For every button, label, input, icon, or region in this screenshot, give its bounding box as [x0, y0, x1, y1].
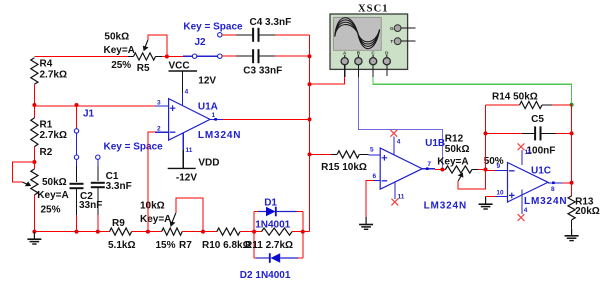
svg-text:25%: 25% [41, 205, 61, 216]
wire pin2 riser [148, 132, 168, 231]
wire throw2 to C4 [222, 34, 236, 36]
pin 8 output lead U1C [548, 182, 563, 184]
wire C2 bottom [76, 188, 78, 215]
capacitor C4 3.3nF [252, 28, 254, 42]
svg-text:7: 7 [427, 161, 431, 168]
op-amp U1A body [169, 99, 210, 141]
node C3 net junction [308, 54, 312, 58]
svg-text:2.7kΩ: 2.7kΩ [40, 70, 67, 81]
svg-text:R14 50kΩ: R14 50kΩ [492, 92, 538, 103]
wire J1 throw2 to C1 [97, 159, 99, 166]
node D-loop left [252, 230, 256, 234]
svg-text:Key=A: Key=A [140, 214, 171, 225]
svg-text:Key=A: Key=A [37, 190, 68, 201]
pin 3 lead [155, 105, 169, 107]
switch J2 blade [197, 55, 218, 57]
wire R12 right to junction [478, 169, 486, 171]
svg-text:C5: C5 [531, 114, 544, 125]
svg-text:50%: 50% [484, 156, 504, 167]
wire top-left net from R4 to R5 [34, 56, 130, 58]
R5 wiper arrow [145, 40, 148, 47]
node scope-A junction [308, 82, 312, 86]
svg-text:R4: R4 [40, 59, 53, 70]
node scope-C junction green [570, 103, 574, 107]
node C1 bottom [96, 230, 100, 234]
svg-text:Key=A: Key=A [437, 156, 468, 167]
ground GND at U1C pin10 [485, 197, 487, 205]
XSC1 terminal stubs [344, 65, 346, 77]
op-amp U1B body [380, 148, 422, 189]
svg-text:U1C: U1C [531, 166, 551, 177]
R7 wiper loop [176, 198, 203, 232]
svg-text:C3 33nF: C3 33nF [243, 66, 282, 77]
svg-text:R5: R5 [137, 63, 150, 74]
wire D-loop right vertical [302, 212, 304, 259]
svg-text:U1B: U1B [425, 138, 445, 149]
wire R5 right to junction [162, 56, 167, 58]
power VDD symbol [182, 150, 184, 168]
svg-text:15%: 15% [156, 240, 176, 251]
wire riser to R15 [310, 153, 332, 155]
svg-text:R9: R9 [112, 218, 125, 229]
svg-text:Key = Space: Key = Space [183, 22, 243, 33]
wire C4 right [259, 34, 275, 36]
diode D2 1N4001 [256, 257, 269, 259]
wire bottom rail [34, 231, 109, 233]
switch J1 throw1 [74, 155, 78, 159]
wire scope-A red [310, 77, 345, 84]
wire C1 bottom [97, 187, 99, 215]
node R12 right junction [484, 168, 488, 172]
svg-text:LM324N: LM324N [524, 196, 567, 207]
pin 6 lead U1B [372, 180, 380, 182]
wire scope-C green [373, 77, 571, 105]
svg-text:4: 4 [397, 139, 401, 146]
svg-text:Key=A: Key=A [104, 45, 135, 56]
capacitor C1 3.3nF [91, 182, 105, 184]
wire C5 row [486, 132, 522, 134]
pin 5 lead U1B [369, 154, 381, 156]
wire scope-B blue [358, 77, 442, 170]
svg-text:T: T [390, 39, 393, 44]
node rail / R10 left [201, 230, 205, 234]
U1B plus sign [382, 155, 388, 161]
pin 4 stub U1B [393, 137, 395, 155]
resistor R9 5.1k [110, 228, 132, 235]
svg-text:4: 4 [185, 89, 189, 96]
wire left feedback riser [485, 105, 487, 170]
R2 wiper loop [12, 162, 34, 182]
svg-text:D2: D2 [240, 270, 253, 281]
diode D1 1N4001 [258, 211, 266, 213]
svg-text:R7: R7 [179, 240, 192, 251]
svg-text:3.3nF: 3.3nF [106, 181, 132, 192]
svg-text:-12V: -12V [176, 173, 197, 184]
wire J1 throw1 to C2 [76, 159, 78, 166]
potentiometer R7 body [162, 228, 183, 235]
no-connect X on U1C pin4 [518, 214, 525, 221]
wire U1C out to junction [563, 182, 572, 184]
pin 9 lead U1C [486, 169, 496, 171]
switch J2 throw2 [218, 33, 222, 37]
svg-text:R2: R2 [40, 147, 53, 158]
switch J1 pole [74, 129, 78, 133]
resistor R10 6.8k [217, 228, 240, 235]
wire main riser [309, 35, 311, 231]
svg-text:50kΩ: 50kΩ [104, 32, 129, 43]
svg-text:10: 10 [496, 190, 504, 197]
no-connect X on U1C pin11 [518, 143, 525, 150]
wire R14 left [486, 104, 520, 106]
pin 10 lead U1C [487, 196, 495, 198]
switch J2 pole [192, 54, 196, 58]
R12 wiper loop [458, 170, 485, 189]
switch J2 throw1 [218, 54, 222, 58]
no-connect X on U1B pin4 [390, 130, 397, 137]
switch J1 throw2 [96, 155, 100, 159]
wire U1B out to R12 [435, 169, 445, 171]
ground GND bottom-left [33, 232, 35, 240]
ground GND under R13 [571, 228, 573, 236]
U1B minus sign [382, 180, 388, 182]
node C5 right junction [570, 131, 574, 135]
capacitor C2 33nF [70, 183, 84, 185]
node U1C output junction [570, 181, 574, 185]
node U1A output junction [308, 117, 312, 121]
wire U1A output to riser [223, 118, 310, 120]
pin 4 lead U1A [182, 93, 184, 105]
svg-text:R1: R1 [40, 120, 53, 131]
wire to J2 pole [183, 55, 192, 57]
no-connect X on U1B pin11 [391, 199, 398, 206]
svg-text:U1A: U1A [198, 102, 218, 113]
svg-text:R11 2.7kΩ: R11 2.7kΩ [245, 240, 293, 251]
svg-text:LM324N: LM324N [198, 130, 241, 141]
resistor R4 2.7k vertical [31, 58, 38, 85]
svg-text:LM324N: LM324N [424, 200, 467, 211]
svg-text:50kΩ: 50kΩ [445, 144, 470, 155]
node U1B output junction [440, 168, 444, 172]
node R1 bottom [32, 160, 36, 164]
XSC1 input terminals A B C D [344, 55, 346, 58]
wire right feedback riser [571, 105, 573, 196]
node C5 left junction [484, 131, 488, 135]
XSC1 screen sine traces [335, 18, 380, 49]
svg-text:1: 1 [212, 112, 216, 119]
R5 wiper loop [148, 35, 167, 57]
svg-text:G: G [390, 26, 394, 31]
svg-text:R12: R12 [445, 134, 464, 145]
U1C minus sign [509, 170, 515, 172]
svg-text:12V: 12V [198, 76, 216, 87]
node R5 right junction [165, 55, 169, 59]
svg-text:3: 3 [157, 100, 161, 107]
pin 11 stub U1B [394, 182, 396, 199]
node R15 junction [308, 152, 312, 156]
resistor R14 50k [520, 101, 543, 108]
svg-text:XSC1: XSC1 [358, 4, 389, 15]
svg-text:20kΩ: 20kΩ [575, 206, 600, 217]
wire rail to R10 [203, 231, 217, 233]
svg-text:10kΩ: 10kΩ [140, 201, 165, 212]
XSC1 screen [334, 17, 382, 50]
svg-text:2: 2 [157, 126, 161, 133]
pin 1 output lead [210, 118, 223, 120]
wire node to op-amp pin3 [34, 105, 158, 107]
wire R5 junction to VCC node [167, 56, 183, 58]
potentiometer R2 body [33, 147, 35, 169]
svg-text:50kΩ: 50kΩ [42, 177, 67, 188]
wire D1 corners [254, 211, 260, 213]
wire D2 corners [254, 257, 258, 259]
wire J1 node down [76, 105, 78, 129]
svg-text:VDD: VDD [198, 158, 219, 169]
wire C3 right [259, 55, 275, 57]
op-amp U1C body [508, 163, 549, 203]
svg-text:D1: D1 [264, 198, 277, 209]
resistor R13 20k vertical [568, 196, 575, 220]
svg-text:11: 11 [525, 149, 532, 156]
svg-text:VCC: VCC [169, 61, 190, 72]
svg-text:J2: J2 [195, 37, 207, 48]
wire throw1 to C3 [222, 55, 236, 57]
resistor R1 2.7k vertical [31, 118, 38, 147]
pin 7 output lead U1B [422, 168, 435, 170]
svg-text:Key = Space: Key = Space [104, 142, 164, 153]
U1A minus sign [170, 131, 176, 133]
R7 wiper arrow [172, 213, 176, 222]
U1C plus sign [509, 193, 515, 199]
node at R4 bottom / J1 net [32, 103, 36, 107]
pin 11 lead U1A [182, 133, 184, 150]
pin 2 lead [155, 131, 169, 133]
wire R11 leads [254, 231, 261, 233]
node D-loop right [301, 230, 305, 234]
svg-text:1N4001: 1N4001 [255, 270, 290, 281]
svg-text:R15 10kΩ: R15 10kΩ [321, 162, 367, 173]
wire D-loop left vertical [253, 212, 255, 259]
svg-text:25%: 25% [111, 60, 131, 71]
svg-text:9: 9 [497, 163, 501, 170]
resistor R5 body [128, 56, 134, 58]
svg-text:4: 4 [524, 207, 528, 214]
wire loop-to-riser [303, 231, 310, 233]
svg-text:R10 6.8kΩ: R10 6.8kΩ [202, 240, 251, 251]
resistor R11 2.7k [262, 228, 293, 235]
svg-text:11: 11 [186, 147, 193, 154]
svg-text:5: 5 [370, 147, 374, 154]
oscilloscope XSC1 box [330, 14, 408, 69]
XSC1 G T terminals [394, 25, 401, 32]
R2 wiper arrow [23, 182, 29, 185]
resistor R15 10k [331, 153, 337, 155]
U1A plus sign [170, 105, 176, 111]
wire pin10 ground stub [486, 196, 487, 198]
svg-text:J1: J1 [83, 109, 95, 120]
svg-text:5.1kΩ: 5.1kΩ [108, 240, 135, 251]
capacitor C5 100nF [534, 126, 536, 140]
pin 11 stub U1C [521, 150, 523, 165]
svg-text:2.7kΩ: 2.7kΩ [40, 130, 67, 141]
svg-text:6: 6 [373, 173, 377, 180]
svg-text:33nF: 33nF [79, 200, 102, 211]
R12 wiper arrow [458, 177, 461, 182]
node rail / pin2 riser [146, 230, 150, 234]
node C2 bottom [75, 230, 79, 234]
pin 4 stub U1C [521, 190, 523, 214]
potentiometer R12 body [445, 166, 472, 173]
wire pin6 to ground [366, 181, 374, 217]
wire rail to R7 [148, 231, 162, 233]
node J1 top [75, 103, 79, 107]
ground GND under U1B [365, 217, 367, 225]
wire junction to R13 [571, 183, 573, 196]
svg-text:11: 11 [398, 194, 405, 201]
svg-text:8: 8 [551, 186, 555, 193]
switch J1 blade [76, 133, 78, 155]
node ground-rail left [32, 230, 36, 234]
wire C5 right [541, 132, 556, 134]
power VCC symbol [169, 70, 198, 72]
svg-text:C4 3.3nF: C4 3.3nF [250, 17, 292, 28]
capacitor C3 33nF [252, 49, 254, 63]
